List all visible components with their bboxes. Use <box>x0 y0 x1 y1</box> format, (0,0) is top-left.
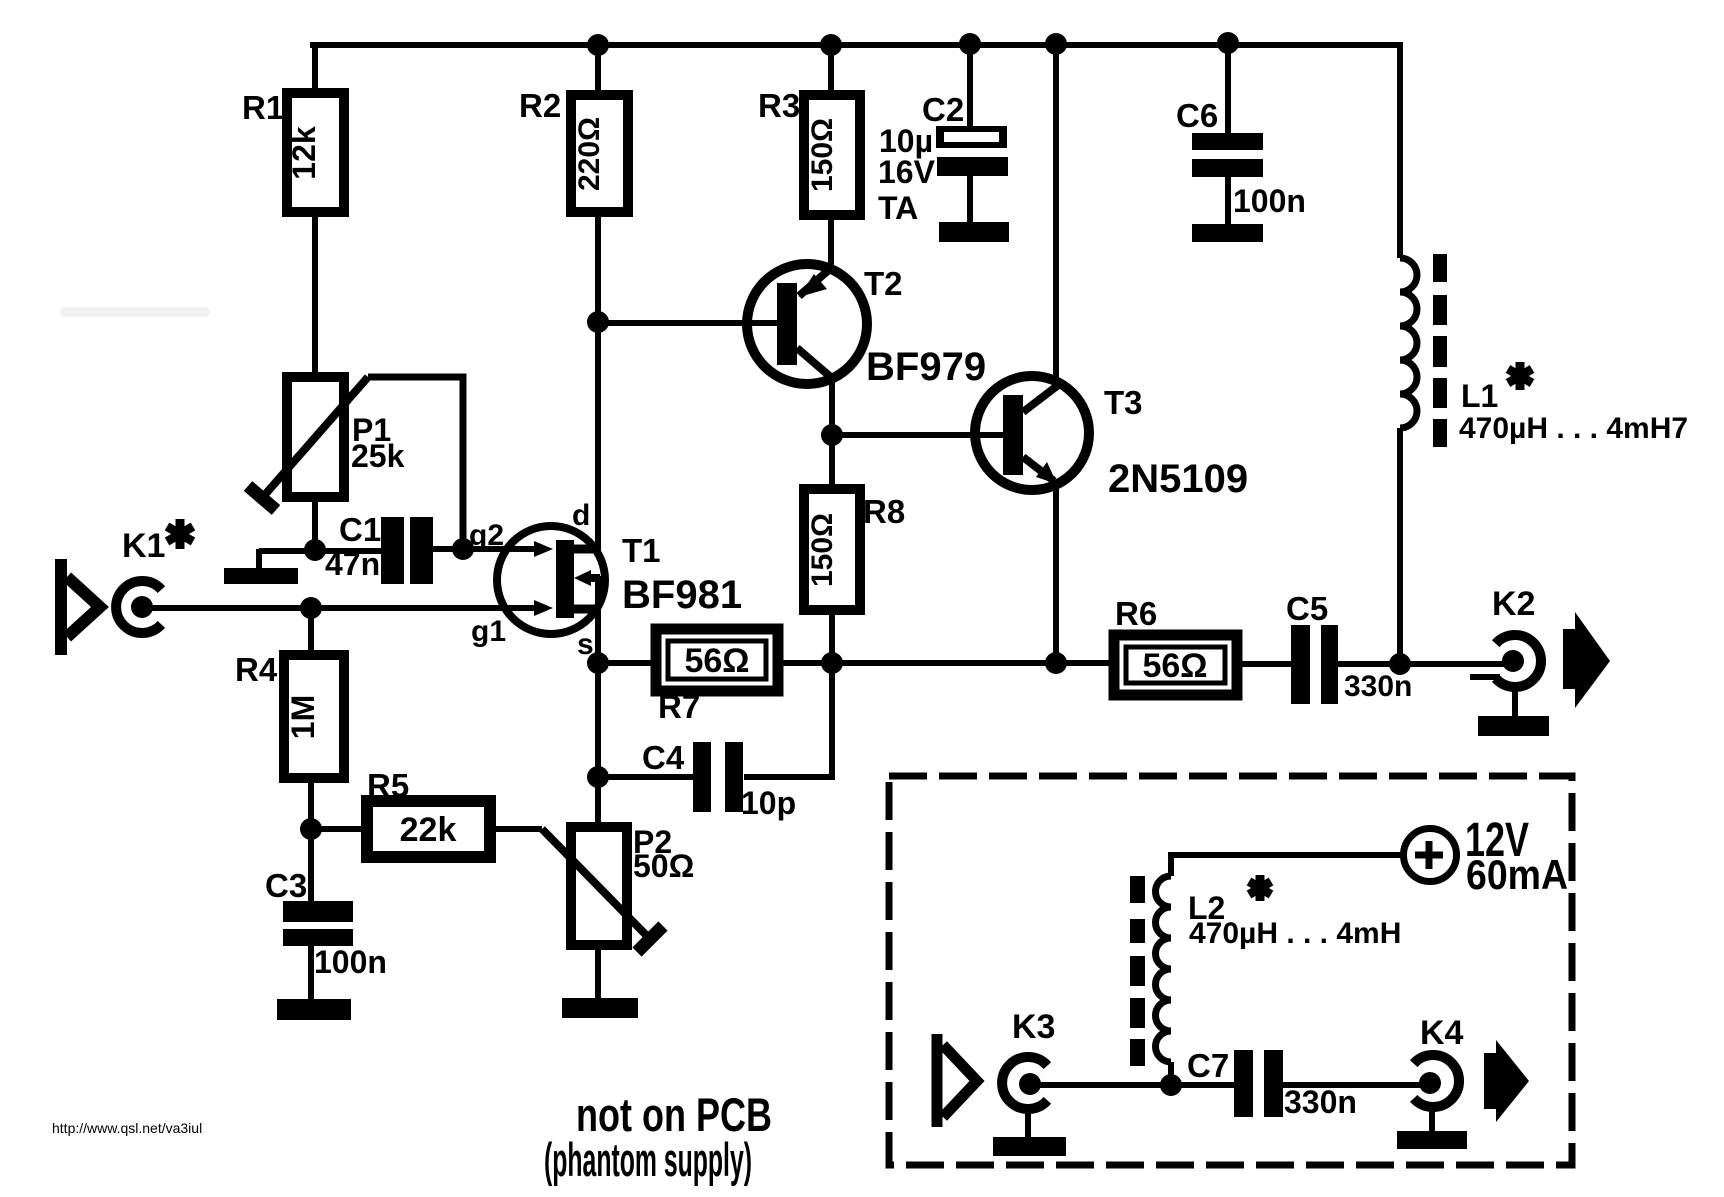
svg-text:K3: K3 <box>1012 1008 1055 1046</box>
svg-text:R1: R1 <box>242 89 284 126</box>
svg-text:C3: C3 <box>265 867 307 904</box>
svg-text:220Ω: 220Ω <box>573 117 606 191</box>
svg-text:g2: g2 <box>469 519 504 552</box>
svg-text:s: s <box>577 628 594 661</box>
svg-text:25k: 25k <box>351 438 405 474</box>
svg-text:http://www.qsl.net/va3iul: http://www.qsl.net/va3iul <box>52 1120 202 1136</box>
svg-text:R3: R3 <box>758 87 800 124</box>
svg-text:150Ω: 150Ω <box>806 118 839 192</box>
svg-text:g1: g1 <box>471 615 506 648</box>
svg-text:R7: R7 <box>658 688 700 725</box>
svg-text:56Ω: 56Ω <box>684 642 749 680</box>
svg-text:100n: 100n <box>1233 183 1306 219</box>
svg-text:C6: C6 <box>1176 97 1218 134</box>
svg-text:R4: R4 <box>235 651 278 688</box>
svg-text:60mA: 60mA <box>1466 851 1568 898</box>
svg-text:470µH . . . 4mH7: 470µH . . . 4mH7 <box>1459 412 1688 445</box>
svg-text:330n: 330n <box>1284 1084 1357 1120</box>
svg-text:K2: K2 <box>1492 585 1535 623</box>
svg-text:150Ω: 150Ω <box>806 513 839 587</box>
svg-text:C7: C7 <box>1187 1047 1229 1084</box>
svg-text:d: d <box>572 499 590 532</box>
svg-text:R5: R5 <box>367 767 409 804</box>
svg-text:56Ω: 56Ω <box>1142 647 1207 685</box>
svg-text:K1: K1 <box>122 527 165 565</box>
svg-text:22k: 22k <box>400 811 457 849</box>
svg-text:16V: 16V <box>878 154 936 190</box>
svg-text:C1: C1 <box>339 511 381 548</box>
svg-text:L1: L1 <box>1461 378 1498 414</box>
svg-text:330n: 330n <box>1344 670 1412 703</box>
svg-text:10p: 10p <box>741 785 796 821</box>
svg-text:BF979: BF979 <box>866 345 986 389</box>
svg-text:BF981: BF981 <box>622 573 742 617</box>
svg-text:2N5109: 2N5109 <box>1108 457 1248 501</box>
svg-text:(phantom supply): (phantom supply) <box>544 1133 752 1186</box>
svg-text:1M: 1M <box>285 695 321 739</box>
svg-text:T1: T1 <box>622 532 661 569</box>
svg-text:50Ω: 50Ω <box>633 848 694 884</box>
svg-text:47n: 47n <box>325 546 380 582</box>
svg-text:12k: 12k <box>286 126 322 180</box>
svg-text:C5: C5 <box>1286 590 1328 627</box>
svg-text:R6: R6 <box>1115 595 1157 632</box>
svg-text:T3: T3 <box>1104 384 1143 421</box>
svg-text:R8: R8 <box>863 493 905 530</box>
svg-text:C4: C4 <box>642 739 685 776</box>
svg-text:R2: R2 <box>519 87 561 124</box>
svg-text:100n: 100n <box>314 944 387 980</box>
svg-text:470µH . . . 4mH: 470µH . . . 4mH <box>1189 917 1401 950</box>
svg-text:TA: TA <box>878 190 918 226</box>
svg-text:T2: T2 <box>864 265 903 302</box>
svg-text:K4: K4 <box>1420 1014 1464 1052</box>
